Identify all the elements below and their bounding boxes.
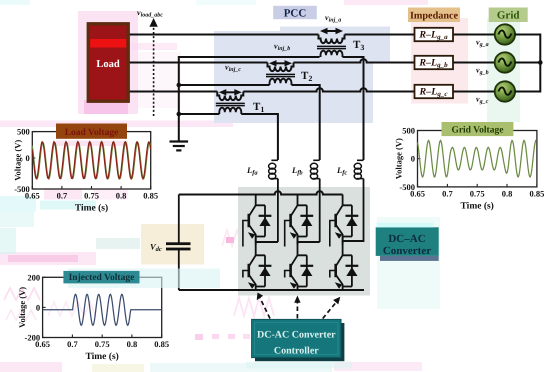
IGBT Q6 (lower, leg c) with freewheel diode xyxy=(330,245,359,291)
IGBT Q1 (upper, leg a) with freewheel diode xyxy=(243,195,272,247)
wire leg c midpoint to L_fc xyxy=(343,237,364,245)
junction neutral/T1 xyxy=(177,112,182,117)
svg-text:Controller: Controller xyxy=(274,346,319,357)
wire leg a midpoint to L_fa xyxy=(256,237,278,245)
transformer T3 xyxy=(317,28,346,57)
capacitor V_dc xyxy=(166,195,191,291)
junction neutral/T2 xyxy=(177,83,182,88)
svg-text:0: 0 xyxy=(26,153,30,163)
label Load Voltage xyxy=(56,124,127,139)
svg-text:Voltage (V): Voltage (V) xyxy=(17,287,27,328)
svg-text:Impedance: Impedance xyxy=(410,10,459,21)
label Impedance xyxy=(408,8,460,23)
dashed control arrow to leg c xyxy=(323,297,341,319)
wire T3 secondary to L_fc xyxy=(343,57,364,160)
svg-text:vg_c: vg_c xyxy=(476,95,489,106)
svg-text:PCC: PCC xyxy=(284,7,307,19)
impedance R-L_g_b xyxy=(415,56,454,69)
svg-text:0: 0 xyxy=(411,154,415,164)
wire phase c: T1 to R-L_g_c (hops over L_fb and L_fc leads) xyxy=(243,88,414,91)
svg-text:Lfb: Lfb xyxy=(291,165,303,177)
svg-text:0.8: 0.8 xyxy=(127,339,138,349)
PCC region (main) xyxy=(214,31,373,123)
wire phase a: T3 to R-L_g_a xyxy=(345,34,415,36)
impedance R-L_g_c xyxy=(415,85,454,98)
svg-text:500: 500 xyxy=(402,126,415,136)
svg-text:0.85: 0.85 xyxy=(529,188,544,198)
svg-text:200: 200 xyxy=(27,272,40,282)
wire T1 secondary to L_fa xyxy=(241,114,278,160)
wire R-L_g_b to source v_g_b xyxy=(453,62,495,64)
AC source v_g_a xyxy=(495,24,515,44)
dashed control arrow to leg b xyxy=(294,296,300,319)
svg-text:vinj_a: vinj_a xyxy=(325,13,341,24)
wire phase a: load to T3 primary xyxy=(129,34,319,36)
svg-text:0.7: 0.7 xyxy=(442,188,453,198)
svg-text:Grid Voltage: Grid Voltage xyxy=(451,126,503,136)
svg-text:-500: -500 xyxy=(399,182,415,192)
transformer T1 xyxy=(216,89,245,114)
svg-text:Time (s): Time (s) xyxy=(75,204,108,214)
IGBT Q4 (lower, leg a) with freewheel diode xyxy=(243,245,272,291)
plot: injected voltage waveform xyxy=(43,269,220,326)
grid region strip xyxy=(487,18,520,122)
svg-text:Lfa: Lfa xyxy=(246,165,258,177)
svg-text:0.75: 0.75 xyxy=(95,339,110,349)
wire phase b: load to T2 primary xyxy=(129,62,268,64)
plot: grid voltage axes xyxy=(394,126,545,212)
plot: grid voltage waveform xyxy=(418,140,537,177)
label Grid xyxy=(489,8,528,23)
label PCC xyxy=(273,6,317,20)
svg-text:Time (s): Time (s) xyxy=(461,201,494,211)
wire grid bus xyxy=(515,35,541,92)
svg-text:Injected Voltage: Injected Voltage xyxy=(69,273,135,283)
svg-text:0.7: 0.7 xyxy=(57,191,68,201)
svg-text:Voltage (V): Voltage (V) xyxy=(394,138,404,179)
Vdc region box xyxy=(141,224,204,265)
wire neutral bus (transformer secondaries common) xyxy=(179,57,320,142)
svg-text:0.75: 0.75 xyxy=(84,191,99,201)
svg-text:vload_abc: vload_abc xyxy=(137,8,163,19)
AC source v_g_c xyxy=(495,81,515,101)
wire phase b: T2 to R-L_g_b (hop over L_fc lead) xyxy=(294,59,415,62)
transformer T2 xyxy=(266,60,295,85)
DC-AC label backing strip xyxy=(377,217,440,309)
wire DC bus bottom rail xyxy=(179,289,364,291)
svg-text:vg_a: vg_a xyxy=(476,38,489,49)
AC source v_g_b xyxy=(495,52,515,72)
svg-text:-200: -200 xyxy=(25,333,41,343)
label DC-AC Converter xyxy=(376,223,439,261)
svg-text:-500: -500 xyxy=(14,184,30,194)
plot: load voltage waveform xyxy=(32,142,150,179)
svg-text:Time (s): Time (s) xyxy=(85,352,118,362)
wire DC bus top rail (hops over L_fa, L_fb leads) xyxy=(179,191,343,194)
wire neutral tap to T2 secondary xyxy=(179,84,270,86)
IGBT Q3 (upper, leg c) with freewheel diode xyxy=(330,195,359,247)
svg-text:0.85: 0.85 xyxy=(154,339,169,349)
wire neutral tap to T1 secondary xyxy=(179,113,220,115)
label Grid Voltage xyxy=(442,122,514,136)
inductor L_fa xyxy=(269,160,278,242)
plot: injected voltage axes xyxy=(17,272,169,362)
svg-text:DC–AC: DC–AC xyxy=(388,233,425,245)
IGBT Q2 (upper, leg b) with freewheel diode xyxy=(285,195,313,247)
svg-text:Load: Load xyxy=(96,59,120,70)
svg-text:Converter: Converter xyxy=(383,245,431,257)
svg-text:500: 500 xyxy=(17,127,30,137)
inductor L_fb xyxy=(310,160,319,242)
IGBT Q5 (lower, leg b) with freewheel diode xyxy=(285,245,313,291)
ground xyxy=(170,142,189,151)
svg-text:Lfc: Lfc xyxy=(336,165,347,177)
svg-text:Grid: Grid xyxy=(497,10,520,22)
svg-text:0.8: 0.8 xyxy=(502,188,513,198)
label Injected Voltage xyxy=(63,271,139,284)
svg-text:0: 0 xyxy=(36,302,40,312)
converter region xyxy=(238,187,370,296)
junction grid bus phase b xyxy=(538,60,543,65)
svg-text:0.7: 0.7 xyxy=(67,339,78,349)
PCC region (upper) xyxy=(280,27,390,62)
svg-text:0.8: 0.8 xyxy=(116,191,127,201)
wire R-L_g_c to source v_g_c xyxy=(453,91,495,93)
svg-text:DC-AC Converter: DC-AC Converter xyxy=(257,330,336,341)
controller box DC-AC Converter Controller xyxy=(252,319,345,361)
inductor L_fc xyxy=(354,160,363,242)
svg-text:Load Voltage: Load Voltage xyxy=(65,128,119,138)
wire leg b midpoint to L_fb xyxy=(298,237,320,245)
measurement arrow v_load_abc xyxy=(137,8,163,116)
load block xyxy=(88,23,130,102)
wire phase c: load to T1 primary xyxy=(129,91,217,93)
svg-text:0.85: 0.85 xyxy=(143,191,158,201)
impedance region strip xyxy=(411,18,468,104)
svg-text:Voltage (V): Voltage (V) xyxy=(13,140,23,181)
svg-text:0.75: 0.75 xyxy=(470,188,485,198)
svg-text:vg_b: vg_b xyxy=(476,66,489,77)
wire T2 secondary to L_fb xyxy=(292,85,320,160)
dashed control arrow to leg a xyxy=(257,293,270,319)
impedance R-L_g_a xyxy=(415,28,454,41)
wire R-L_g_a to source v_g_a xyxy=(453,34,495,36)
plot: load voltage axes xyxy=(13,127,159,214)
